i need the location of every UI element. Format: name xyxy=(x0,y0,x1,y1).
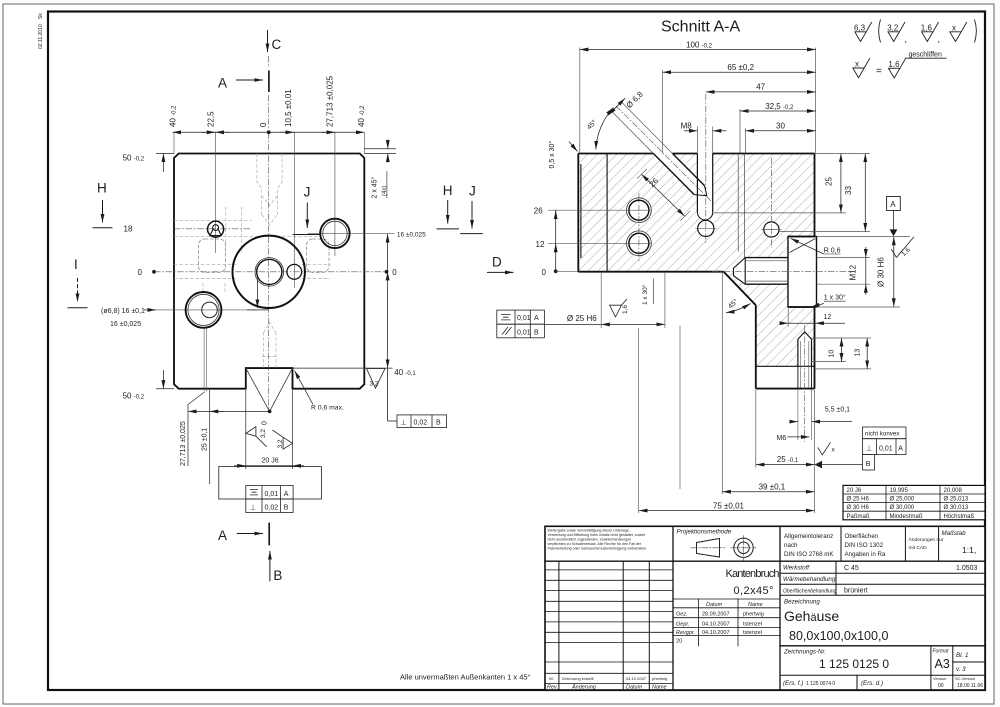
svg-text:75 ±0,01: 75 ±0,01 xyxy=(713,501,745,510)
top-left pin circle xyxy=(208,221,224,237)
svg-text:20: 20 xyxy=(676,639,682,645)
svg-text:28.09.2007: 28.09.2007 xyxy=(702,612,730,618)
svg-text:18: 18 xyxy=(124,225,133,234)
svg-text:M6: M6 xyxy=(777,435,787,442)
svg-text:A: A xyxy=(534,315,539,322)
svg-text:Ø 30 H6: Ø 30 H6 xyxy=(847,505,870,511)
svg-text:65 ±0,2: 65 ±0,2 xyxy=(727,63,754,72)
M12 screw plug head xyxy=(788,237,817,308)
svg-text:Mindestmaß: Mindestmaß xyxy=(890,514,923,520)
svg-text:Maßstab: Maßstab xyxy=(942,530,967,537)
hidden feature: top vertical hole (dashed) xyxy=(257,154,282,225)
svg-text:Kantenbruch: Kantenbruch xyxy=(726,568,780,580)
svg-text:R 0,6 max.: R 0,6 max. xyxy=(311,405,344,412)
svg-text:H: H xyxy=(443,183,453,198)
hidden pocket top-left verticals (dashed) xyxy=(203,207,241,295)
svg-text:brüniert: brüniert xyxy=(844,588,868,595)
svg-text:1,6: 1,6 xyxy=(888,60,900,69)
roughness symbol 3,2 xyxy=(887,22,905,42)
svg-text:A: A xyxy=(284,491,289,498)
right side extension lines xyxy=(714,154,910,369)
Zeichnungs-Nr row xyxy=(780,645,985,647)
Oberflaechen cell xyxy=(845,533,886,558)
bottom row xyxy=(780,674,985,676)
M6 stud xyxy=(798,332,812,389)
line 16 +-0.025 level through top-right circle xyxy=(308,232,395,234)
plug axis centerline xyxy=(712,271,852,273)
holes vertical centerline extended to 75 dim xyxy=(638,193,640,262)
projection symbol circles xyxy=(734,538,753,557)
svg-text:47: 47 xyxy=(756,83,765,92)
svg-text:nicht ausdrücklich zugestanden: nicht ausdrücklich zugestanden. Zuwiderh… xyxy=(548,538,632,542)
svg-text:6,3: 6,3 xyxy=(854,24,866,33)
svg-text:1:1,: 1:1, xyxy=(962,545,976,555)
thin extension verticals through part xyxy=(174,132,364,288)
svg-text:2 x 45°: 2 x 45° xyxy=(371,176,379,198)
svg-text:12: 12 xyxy=(536,240,545,249)
nicht konvex frame xyxy=(863,427,907,470)
inner slot edges xyxy=(737,154,739,252)
svg-text:Bl. 1: Bl. 1 xyxy=(956,652,968,659)
svg-text:0: 0 xyxy=(138,268,143,277)
inner front plate line xyxy=(606,154,608,272)
drill thin extensions xyxy=(612,112,653,154)
svg-text:0,02: 0,02 xyxy=(414,419,428,426)
roughness symbol 6,3 xyxy=(854,22,872,42)
svg-text:Projektionsmethode: Projektionsmethode xyxy=(677,529,732,536)
dim 32,5 -0,2 xyxy=(740,110,816,112)
dia 6,8 dimension xyxy=(608,98,625,115)
svg-text:x: x xyxy=(952,24,956,33)
horizontal tapped holes circles xyxy=(627,198,652,256)
svg-text:16 ±0,025: 16 ±0,025 xyxy=(110,321,141,328)
svg-text:39 ±0,1: 39 ±0,1 xyxy=(759,482,786,491)
svg-text:B: B xyxy=(284,504,289,511)
svg-text:1 125 0125 0: 1 125 0125 0 xyxy=(819,657,889,671)
svg-text:M8: M8 xyxy=(681,122,693,131)
dia 25 H6 dim xyxy=(544,323,601,325)
Waermebehandlung row xyxy=(780,583,985,585)
svg-text:18.00.11.06: 18.00.11.06 xyxy=(957,683,983,689)
dim 39 ±0,1 xyxy=(721,273,723,494)
svg-text:C 45: C 45 xyxy=(844,565,859,572)
svg-text:20,008: 20,008 xyxy=(944,488,963,494)
svg-text:,: , xyxy=(905,34,908,44)
roughness symbol x xyxy=(950,22,967,42)
svg-text:A3: A3 xyxy=(935,657,950,671)
svg-text:A: A xyxy=(218,528,227,543)
hatched section body xyxy=(578,154,814,367)
svg-text:Wärmebehandlung: Wärmebehandlung xyxy=(783,576,836,583)
svg-text:04.10.2007: 04.10.2007 xyxy=(626,676,647,681)
section outline edges xyxy=(578,154,814,389)
roughness 3,2 at bottom-right edge xyxy=(367,369,386,389)
revision header row xyxy=(547,684,667,691)
revision row 00 xyxy=(549,676,667,681)
svg-text:0: 0 xyxy=(542,268,547,277)
svg-text:M12: M12 xyxy=(848,264,857,280)
dim 25 right xyxy=(840,154,842,213)
svg-text:Ø 30 H6: Ø 30 H6 xyxy=(876,257,885,287)
svg-text:10: 10 xyxy=(829,350,836,358)
svg-text:Version: Version xyxy=(933,676,946,681)
view arrow B bottom xyxy=(269,551,271,581)
svg-text:(Ers. f.): (Ers. f.) xyxy=(783,680,803,687)
svg-text:phertwig: phertwig xyxy=(652,676,667,681)
svg-text:C: C xyxy=(272,37,282,52)
drill axis centerline xyxy=(616,106,712,202)
leg rear face separation line xyxy=(756,365,815,367)
parenthesis ) xyxy=(975,20,977,43)
dim 33 right xyxy=(864,154,866,232)
svg-text:Werkstoff: Werkstoff xyxy=(783,565,810,572)
title block main verticals xyxy=(672,526,674,690)
svg-text:0: 0 xyxy=(262,421,269,425)
svg-text:J: J xyxy=(304,185,311,200)
svg-text:5,5 ±0,1: 5,5 ±0,1 xyxy=(825,406,850,413)
svg-text:10,5 ±0,01: 10,5 ±0,01 xyxy=(284,89,293,127)
inner bore circles xyxy=(255,258,284,287)
svg-text:Oberflächen: Oberflächen xyxy=(845,533,879,540)
svg-text:nach: nach xyxy=(784,542,798,549)
svg-text:(ø6,8) 16 ±0,1: (ø6,8) 16 ±0,1 xyxy=(101,308,145,315)
svg-text:R 0,6: R 0,6 xyxy=(824,247,841,254)
svg-text:1 x 30°: 1 x 30° xyxy=(641,284,649,305)
svg-text:tstenzel: tstenzel xyxy=(743,622,762,628)
svg-text:Zeichnungs-Nr.: Zeichnungs-Nr. xyxy=(783,649,826,656)
svg-text:1,6: 1,6 xyxy=(622,305,629,314)
svg-text:SC-Version: SC-Version xyxy=(955,676,975,681)
svg-text:1,6: 1,6 xyxy=(921,24,933,33)
svg-text:B: B xyxy=(534,329,539,336)
dim 30 xyxy=(745,130,815,132)
hole clearances (white) xyxy=(627,154,812,367)
top row cell dividers xyxy=(840,526,842,561)
roughness symbol x row2 xyxy=(853,58,870,77)
hidden pocket right (dashed rounded) xyxy=(307,239,330,272)
svg-text:v. 3: v. 3 xyxy=(956,666,966,673)
svg-text:⊥: ⊥ xyxy=(401,419,407,426)
svg-text:25: 25 xyxy=(825,177,834,186)
svg-text:0,5 x 30°: 0,5 x 30° xyxy=(548,141,556,169)
vertical centerline (dash-dot) xyxy=(268,132,270,412)
bottom jog extension 27,713 xyxy=(203,328,205,392)
svg-text:Verwertung und Mitteilung ihre: Verwertung und Mitteilung ihres Inhalts … xyxy=(548,533,645,537)
Aenderungen cell xyxy=(909,536,944,551)
svg-text:0,02: 0,02 xyxy=(265,504,279,511)
top dims extension lines xyxy=(580,48,816,154)
svg-text:DIN ISO 2768 mK: DIN ISO 2768 mK xyxy=(784,551,834,558)
svg-text:B: B xyxy=(436,419,441,426)
offset drill exit circle xyxy=(202,302,218,318)
svg-text:20 J6: 20 J6 xyxy=(262,458,279,465)
svg-text:0,01: 0,01 xyxy=(517,315,531,322)
svg-text:1 125 0074 0: 1 125 0074 0 xyxy=(806,681,835,687)
hidden horizontal hole pair at 18 level (dashed) xyxy=(174,221,330,279)
svg-text:0,01: 0,01 xyxy=(879,445,893,452)
M8 tapped hole xyxy=(697,154,714,237)
svg-text:3,2: 3,2 xyxy=(260,429,267,438)
svg-text:(4x): (4x) xyxy=(382,186,388,196)
svg-text:nicht konvex: nicht konvex xyxy=(865,431,900,438)
svg-text:A: A xyxy=(218,76,227,91)
svg-text:Alle unvermaßten Außenkanten 1: Alle unvermaßten Außenkanten 1 x 45° xyxy=(400,673,531,682)
svg-text:Ø 25 H6: Ø 25 H6 xyxy=(847,497,870,503)
top-right circle xyxy=(320,219,349,248)
centerline 18 level through pin circle xyxy=(174,228,250,230)
dim 65 ±0,2 xyxy=(663,71,816,73)
svg-text:04.10.2007: 04.10.2007 xyxy=(702,622,730,628)
pin inner bell xyxy=(210,229,221,235)
svg-text:Format: Format xyxy=(933,649,949,655)
svg-text:Weitergabe sowie Vervielfältig: Weitergabe sowie Vervielfältigung dieser… xyxy=(548,529,630,533)
svg-text:0: 0 xyxy=(392,268,397,277)
svg-text:12: 12 xyxy=(824,314,832,321)
chamfer dim 2x45 xyxy=(364,148,396,150)
Gez table xyxy=(673,599,780,646)
svg-text:0,01: 0,01 xyxy=(517,329,531,336)
svg-text:Ø 30,013: Ø 30,013 xyxy=(944,505,969,511)
part outline front view with chamfered corners and bottom slot xyxy=(174,154,364,389)
left revision table verticals xyxy=(558,561,560,690)
fit tolerance table xyxy=(843,485,985,519)
svg-text:Änderungen nur: Änderungen nur xyxy=(909,536,944,543)
svg-text:Name: Name xyxy=(652,685,667,691)
left revision table rows xyxy=(545,570,673,684)
inner 16±0,1 arrow xyxy=(256,279,258,308)
upper small hole circle xyxy=(764,222,779,237)
svg-text:I: I xyxy=(74,257,78,272)
small circle right of center xyxy=(287,264,302,279)
slot leader V lines to zero point xyxy=(246,368,270,411)
svg-text:mit CAD: mit CAD xyxy=(909,545,928,551)
dim 13 xyxy=(866,338,868,369)
svg-text:Zeichnung erstellt: Zeichnung erstellt xyxy=(562,676,594,681)
svg-text:19,995: 19,995 xyxy=(890,488,909,494)
feature control frame below slot xyxy=(246,486,293,513)
svg-text:33: 33 xyxy=(844,186,853,195)
right dim 40 -0,1 xyxy=(293,367,393,369)
hidden feature: bottom tapped hole (dashed) xyxy=(262,323,278,368)
svg-text:Höchstmaß: Höchstmaß xyxy=(944,514,975,520)
dim dia 30 H6 xyxy=(893,237,895,307)
svg-text:H: H xyxy=(97,181,107,196)
svg-text:x: x xyxy=(855,60,859,69)
svg-text:phertwig: phertwig xyxy=(743,612,764,618)
svg-text:27,713 ±0,025: 27,713 ±0,025 xyxy=(180,421,187,466)
roughness x flag xyxy=(818,442,831,455)
svg-text:Bezeichnung: Bezeichnung xyxy=(784,599,820,606)
datum target big rect xyxy=(219,467,322,499)
svg-text:Revgpr.: Revgpr. xyxy=(676,630,695,636)
svg-text:Änderung: Änderung xyxy=(571,684,597,691)
svg-text:30: 30 xyxy=(776,122,785,131)
svg-text:22,5: 22,5 xyxy=(206,111,215,127)
svg-text:3,2: 3,2 xyxy=(887,24,899,33)
big central circle xyxy=(233,236,305,308)
diagonal drill bore walls xyxy=(653,154,706,196)
45 degree arc dimension xyxy=(596,108,614,150)
svg-text:Oberflächenbehandlung: Oberflächenbehandlung xyxy=(783,588,837,594)
hidden pocket left (dashed rounded) xyxy=(199,239,226,272)
datum B flag xyxy=(815,461,823,469)
perpendicularity frame right xyxy=(388,368,447,427)
svg-text:J: J xyxy=(469,184,476,199)
dim 100 -0,2 xyxy=(580,49,816,51)
bottom dim line to zero dot xyxy=(188,410,270,412)
svg-text:Rev.: Rev. xyxy=(547,685,558,691)
svg-text:Sk: Sk xyxy=(38,13,44,19)
svg-text:02.11.2010: 02.11.2010 xyxy=(38,24,44,49)
fine print text xyxy=(548,529,648,551)
svg-text:(Ers. d.): (Ers. d.) xyxy=(861,680,883,687)
svg-text:00: 00 xyxy=(549,676,554,681)
roughness symbol 1,6 xyxy=(921,22,939,42)
svg-text:Datum: Datum xyxy=(706,602,723,608)
svg-text:16 ±0,025: 16 ±0,025 xyxy=(397,231,426,238)
bottom extension 25 xyxy=(209,390,211,484)
dim 47 xyxy=(706,91,816,93)
svg-text:Ø 30,000: Ø 30,000 xyxy=(890,505,915,511)
roughness symbol 1,6 geschliffen xyxy=(888,52,946,79)
svg-text:Patenterteilung oder Gebrauchs: Patenterteilung oder Gebrauchsmustereint… xyxy=(548,547,648,551)
svg-text:0,2x45°: 0,2x45° xyxy=(734,585,774,597)
svg-text:1.0503: 1.0503 xyxy=(956,565,978,572)
45 degree chamfer arc xyxy=(726,304,751,313)
left face recess line xyxy=(580,164,582,258)
top dimension line xyxy=(172,131,364,133)
svg-text:D: D xyxy=(492,255,502,270)
projection symbol cone xyxy=(697,539,720,558)
svg-text:Ø 25,000: Ø 25,000 xyxy=(890,497,915,503)
svg-text:⊥: ⊥ xyxy=(866,445,872,452)
svg-text:A: A xyxy=(898,445,903,452)
slot roughness symbols 3,2 xyxy=(246,427,293,450)
dim 25 -0,1 xyxy=(755,390,757,468)
view arrow C top xyxy=(267,30,269,52)
svg-text:=: = xyxy=(876,66,882,77)
Werkstoff row xyxy=(780,572,985,574)
svg-text:3,2: 3,2 xyxy=(370,381,379,388)
svg-text:Schnitt A-A: Schnitt A-A xyxy=(661,19,740,36)
svg-text:tstenzel: tstenzel xyxy=(743,630,762,636)
svg-text:26: 26 xyxy=(534,207,543,216)
svg-text:Name: Name xyxy=(748,602,763,608)
svg-text:verpflichten zu Schadenersatz.: verpflichten zu Schadenersatz. Alle Rech… xyxy=(548,542,642,546)
dim M12 xyxy=(865,247,867,258)
title block outer box xyxy=(545,526,985,690)
Allgemeintoleranz cell xyxy=(784,533,834,558)
svg-text:27,713 ±0,025: 27,713 ±0,025 xyxy=(326,75,335,127)
roughness 1,6 at bore xyxy=(610,299,627,317)
datum A xyxy=(887,197,901,211)
svg-text:04.10.2007: 04.10.2007 xyxy=(702,630,730,636)
svg-text:,: , xyxy=(938,34,941,44)
svg-text:DIN ISO 1302: DIN ISO 1302 xyxy=(845,542,884,549)
svg-text:Gez.: Gez. xyxy=(676,612,688,618)
horizontal zero centerline (dash-dot) xyxy=(154,271,387,273)
svg-text:Paßmaß: Paßmaß xyxy=(847,514,870,520)
svg-text:25 ±0,1: 25 ±0,1 xyxy=(202,428,209,451)
parenthesis ( xyxy=(879,20,881,43)
svg-text:80,0x100,0x100,0: 80,0x100,0x100,0 xyxy=(789,629,888,643)
svg-text:Gepr.: Gepr. xyxy=(676,622,690,628)
dim 10 xyxy=(841,338,843,362)
svg-text:20 J6: 20 J6 xyxy=(847,488,862,494)
Oberflaechenbehandlung row xyxy=(780,594,985,596)
svg-text:3,2: 3,2 xyxy=(277,439,284,448)
svg-text:Angaben in Ra: Angaben in Ra xyxy=(845,551,886,558)
svg-text:Ø 25,013: Ø 25,013 xyxy=(944,497,969,503)
svg-text:13: 13 xyxy=(854,349,861,357)
svg-text:00: 00 xyxy=(938,683,944,689)
svg-text:A: A xyxy=(890,200,896,209)
svg-text:0: 0 xyxy=(259,122,268,127)
svg-text:geschliffen: geschliffen xyxy=(909,52,942,59)
svg-text:B: B xyxy=(273,568,282,583)
26 dimension along drill xyxy=(641,174,684,216)
bottom-left circle xyxy=(186,292,222,328)
dim 75 ±0,01 xyxy=(639,510,815,512)
svg-text:⊥: ⊥ xyxy=(250,504,256,511)
svg-text:Datum: Datum xyxy=(626,685,643,691)
svg-text:Ø 25 H6: Ø 25 H6 xyxy=(567,314,597,323)
svg-text:B: B xyxy=(866,461,871,468)
svg-text:0,01: 0,01 xyxy=(265,491,279,498)
feature control frame left xyxy=(497,310,545,338)
roughness 1,6 right xyxy=(891,237,914,258)
svg-text:Allgemeintoleranz: Allgemeintoleranz xyxy=(784,533,833,540)
dim 5,5 ±0,1 xyxy=(790,421,798,423)
svg-text:1 x 30°: 1 x 30° xyxy=(824,294,846,302)
M12 screw plug shaft xyxy=(734,258,789,285)
